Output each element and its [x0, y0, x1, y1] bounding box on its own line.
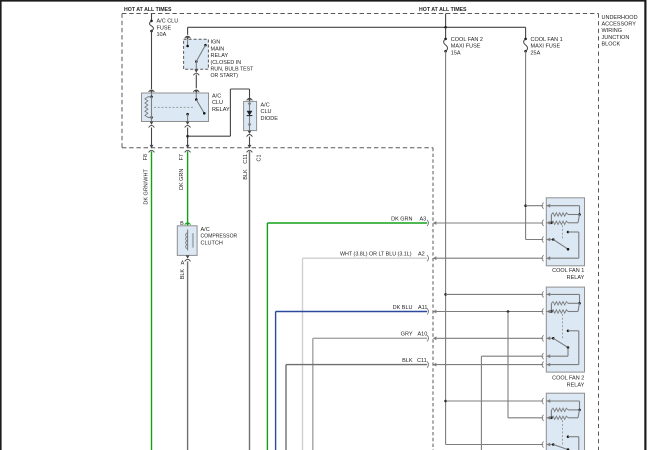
svg-text:COMPRESSOR: COMPRESSOR — [201, 234, 238, 240]
svg-text:DK GRN: DK GRN — [179, 169, 185, 190]
svg-text:ACCESSORY: ACCESSORY — [602, 22, 637, 28]
svg-text:RELAY: RELAY — [211, 53, 229, 59]
svg-text:DIODE: DIODE — [261, 116, 279, 122]
svg-text:RUN, BULB TEST: RUN, BULB TEST — [211, 67, 255, 73]
svg-text:BLOCK: BLOCK — [602, 42, 621, 48]
svg-text:BLK: BLK — [402, 358, 413, 364]
svg-text:A/C: A/C — [261, 102, 270, 108]
svg-text:RELAY: RELAY — [567, 383, 585, 389]
svg-text:CLU: CLU — [261, 109, 272, 115]
svg-text:WIRING: WIRING — [602, 28, 622, 34]
svg-text:(CLOSED IN: (CLOSED IN — [211, 60, 242, 66]
svg-text:COOL FAN 2: COOL FAN 2 — [552, 376, 584, 382]
svg-text:25A: 25A — [531, 50, 541, 56]
svg-text:A10: A10 — [418, 332, 428, 338]
svg-text:DK BLU: DK BLU — [393, 305, 413, 311]
svg-text:A/C: A/C — [212, 93, 221, 99]
svg-text:WHT (3.8L) OR LT BLU (3.1L): WHT (3.8L) OR LT BLU (3.1L) — [340, 252, 412, 258]
svg-text:HOT AT ALL TIMES: HOT AT ALL TIMES — [124, 7, 172, 13]
svg-text:A/C: A/C — [201, 227, 210, 233]
svg-text:F8: F8 — [143, 154, 149, 160]
svg-text:OR START): OR START) — [211, 73, 239, 79]
svg-text:CLU: CLU — [212, 100, 223, 106]
svg-text:IGN: IGN — [211, 40, 221, 46]
svg-text:BLK: BLK — [243, 169, 249, 180]
svg-text:A11: A11 — [418, 305, 427, 311]
svg-text:DK GRN/WHT: DK GRN/WHT — [143, 169, 149, 205]
svg-text:A3: A3 — [420, 216, 427, 222]
svg-text:MAXI FUSE: MAXI FUSE — [451, 44, 481, 50]
svg-text:RELAY: RELAY — [567, 275, 585, 281]
svg-text:B: B — [180, 221, 184, 227]
svg-text:C11: C11 — [417, 358, 427, 364]
svg-text:A/C CLU: A/C CLU — [157, 19, 179, 25]
svg-text:COOL FAN 1: COOL FAN 1 — [552, 268, 584, 274]
svg-text:15A: 15A — [451, 50, 461, 56]
svg-text:CLUTCH: CLUTCH — [201, 240, 223, 246]
svg-text:C1: C1 — [257, 154, 263, 161]
svg-text:GRY: GRY — [401, 332, 413, 338]
svg-text:RELAY: RELAY — [212, 107, 230, 113]
svg-text:10A: 10A — [157, 32, 167, 38]
svg-text:MAIN: MAIN — [211, 46, 225, 52]
svg-text:JUNCTION: JUNCTION — [602, 35, 630, 41]
svg-text:COOL FAN 2: COOL FAN 2 — [451, 37, 483, 43]
svg-text:UNDERHOOD: UNDERHOOD — [602, 15, 638, 21]
svg-text:A2: A2 — [418, 252, 425, 258]
svg-text:BLK: BLK — [180, 269, 186, 280]
svg-text:DK GRN: DK GRN — [391, 216, 412, 222]
svg-text:MAXI FUSE: MAXI FUSE — [531, 44, 561, 50]
svg-text:C11: C11 — [243, 154, 249, 164]
svg-text:HOT AT ALL TIMES: HOT AT ALL TIMES — [419, 7, 467, 13]
svg-text:FUSE: FUSE — [157, 25, 172, 31]
svg-text:A: A — [181, 260, 185, 266]
svg-text:COOL FAN 1: COOL FAN 1 — [531, 37, 563, 43]
svg-text:F7: F7 — [179, 154, 185, 160]
